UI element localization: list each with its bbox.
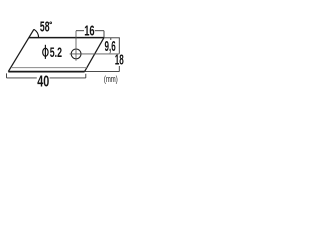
- svg-text:58: 58: [40, 19, 50, 36]
- hole diameter label: phi symbol: [43, 48, 48, 56]
- svg-text:18: 18: [115, 51, 124, 68]
- top edge extension line: [104, 37, 120, 39]
- hole circle: [71, 49, 81, 59]
- dim 40 line right segment: [50, 77, 86, 79]
- degree symbol: [50, 22, 52, 24]
- svg-text:5.2: 5.2: [50, 44, 62, 60]
- blade left slant edge (extended past apex for angle): [8, 29, 34, 71]
- dim 18 vertical lower segment: [118, 66, 120, 72]
- bevel line of cutting edge: [11, 67, 87, 69]
- dim 16 line right segment: [95, 30, 104, 32]
- hole vertical centerline / 16-dim left extension: [75, 31, 77, 61]
- svg-text:16: 16: [84, 22, 94, 39]
- dim 40 right extension: [85, 74, 87, 78]
- blade right slant edge: [85, 38, 104, 72]
- dim 40 left extension: [6, 73, 8, 78]
- svg-text:40: 40: [37, 73, 49, 90]
- blade top edge: [29, 37, 104, 39]
- dim 18 vertical upper segment: [118, 38, 120, 54]
- dim 16 line left segment: [76, 30, 84, 32]
- svg-text:(mm): (mm): [104, 74, 118, 84]
- dim 9,6 tick: [110, 38, 112, 40]
- blade bottom cutting edge: [8, 71, 84, 73]
- dim 40 line left segment: [7, 77, 37, 79]
- angle arc at apex: [34, 29, 39, 37]
- bottom edge extension line: [85, 71, 120, 73]
- hole horizontal centerline: [70, 53, 120, 55]
- dim 16 right extension: [103, 31, 105, 38]
